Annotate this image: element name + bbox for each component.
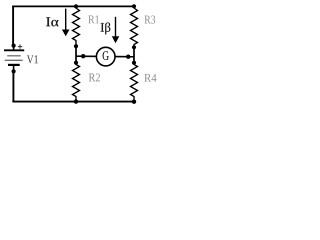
- wire bridge (left column to right column through G): [76, 55, 134, 58]
- label I-beta: [101, 22, 111, 34]
- battery plus sign: [18, 44, 23, 48]
- label R1: [88, 15, 99, 23]
- node dot top of R4: [132, 61, 136, 65]
- label R4: [144, 74, 156, 82]
- wire right column mid (R3 to R4): [133, 47, 135, 62]
- wire bottom-left (battery - down to corner): [12, 71, 14, 101]
- node dot bottom of R3: [132, 45, 136, 49]
- wire left column mid (R1 to R2): [75, 46, 77, 63]
- current arrow I-alpha: [62, 9, 70, 37]
- terminal dot G right: [126, 55, 130, 59]
- node dot bottom of R1: [74, 44, 78, 48]
- label V1: [27, 55, 38, 63]
- node dot R2 bottom on bottom wire: [74, 99, 78, 103]
- node dot top of R2: [74, 61, 78, 65]
- terminal dot G left: [81, 54, 85, 58]
- node dot R4 bottom on bottom wire: [132, 100, 136, 104]
- label I-alpha: [46, 17, 58, 26]
- node dot top of R3: [132, 4, 136, 8]
- wire left (top corner down to battery +): [12, 6, 14, 46]
- current arrow I-beta: [112, 17, 120, 43]
- battery V1: [4, 44, 24, 74]
- resistor R3: [131, 8, 138, 47]
- label R3: [144, 16, 155, 24]
- label R2: [89, 73, 100, 81]
- resistor R2: [73, 64, 80, 102]
- resistor R1: [73, 8, 80, 46]
- node dot top of R1: [74, 4, 78, 8]
- resistor R4: [131, 64, 138, 102]
- galvanometer letter G: [103, 51, 109, 60]
- galvanometer U1 circle: [96, 47, 115, 66]
- wire top (node A to node B): [12, 5, 134, 7]
- wire bottom (corner to node D): [12, 101, 134, 103]
